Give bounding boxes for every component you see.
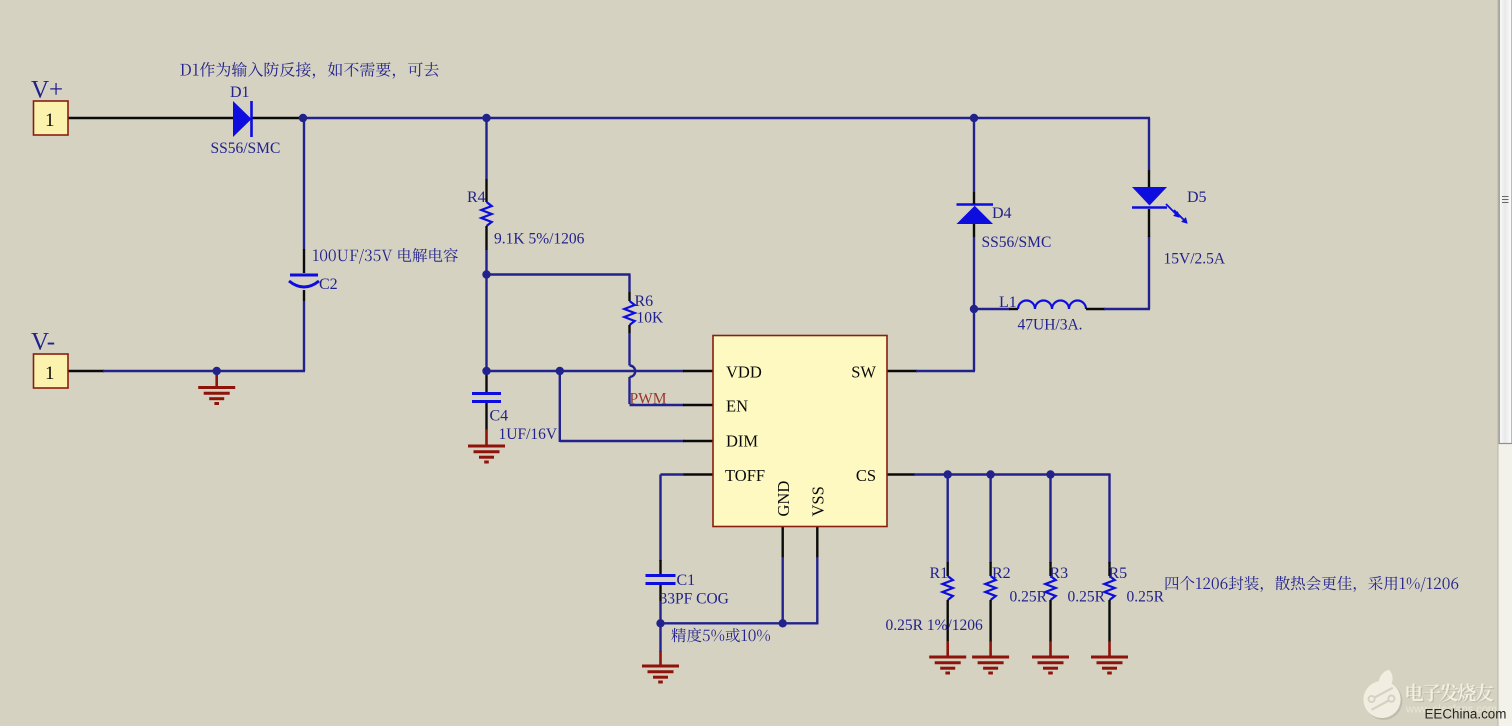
svg-text:PWM: PWM: [630, 391, 667, 408]
svg-text:C2: C2: [319, 276, 338, 293]
svg-text:0.25R 1%/1206: 0.25R 1%/1206: [886, 617, 984, 634]
svg-text:1UF/16V: 1UF/16V: [499, 426, 558, 443]
svg-text:EEChina.com: EEChina.com: [1425, 707, 1507, 722]
svg-text:47UH/3A.: 47UH/3A.: [1018, 317, 1083, 334]
svg-text:V+: V+: [31, 77, 63, 104]
svg-text:R4: R4: [467, 189, 486, 206]
svg-text:SW: SW: [851, 363, 876, 382]
svg-text:R5: R5: [1109, 565, 1128, 582]
svg-text:33PF COG: 33PF COG: [660, 591, 729, 608]
svg-text:TOFF: TOFF: [725, 466, 765, 485]
svg-text:C4: C4: [490, 408, 509, 425]
svg-text:CS: CS: [856, 466, 876, 485]
svg-text:R2: R2: [992, 565, 1011, 582]
svg-text:SS56/SMC: SS56/SMC: [982, 234, 1052, 251]
svg-text:0.25R: 0.25R: [1127, 589, 1165, 606]
svg-text:R1: R1: [930, 565, 949, 582]
svg-text:0.25R: 0.25R: [1068, 589, 1106, 606]
svg-text:R3: R3: [1050, 565, 1069, 582]
svg-text:15V/2.5A: 15V/2.5A: [1164, 251, 1226, 268]
svg-text:VSS: VSS: [809, 486, 828, 516]
svg-text:SS56/SMC: SS56/SMC: [211, 140, 281, 157]
svg-text:D1: D1: [230, 84, 250, 101]
svg-text:L1: L1: [999, 294, 1017, 311]
svg-text:1: 1: [45, 110, 55, 131]
svg-text:10K: 10K: [637, 310, 665, 327]
svg-text:D4: D4: [992, 205, 1012, 222]
svg-text:9.1K 5%/1206: 9.1K 5%/1206: [494, 231, 585, 248]
svg-text:GND: GND: [774, 481, 793, 517]
svg-text:1: 1: [45, 363, 55, 384]
svg-text:DIM: DIM: [726, 432, 758, 451]
svg-text:D5: D5: [1187, 189, 1207, 206]
svg-text:R6: R6: [635, 293, 654, 310]
svg-text:0.25R: 0.25R: [1010, 589, 1048, 606]
svg-text:VDD: VDD: [726, 363, 762, 382]
svg-text:C1: C1: [677, 572, 696, 589]
svg-text:EN: EN: [726, 397, 748, 416]
svg-text:V-: V-: [31, 329, 55, 356]
